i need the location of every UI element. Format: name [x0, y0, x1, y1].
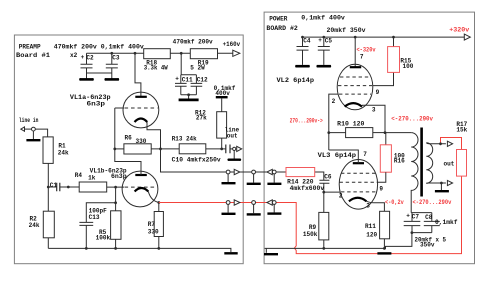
svg-text:x2: x2	[70, 52, 78, 59]
ground: line out	[233, 151, 235, 159]
wire: VL3 anode to node A	[329, 150, 359, 163]
svg-text:27k: 27k	[196, 114, 207, 121]
svg-text:R9: R9	[309, 224, 317, 231]
svg-text:C5: C5	[325, 38, 333, 45]
svg-text:100k: 100k	[96, 235, 111, 242]
svg-text:470mkf 200v: 470mkf 200v	[173, 39, 213, 46]
wire: VL3 g1	[324, 191, 340, 193]
wire: red signal row B	[159, 202, 267, 204]
wire: VL1a cathode to R6 node	[147, 122, 161, 149]
resistor R14 (red)	[286, 168, 315, 177]
svg-text:24k: 24k	[29, 222, 40, 229]
node: R6 right junction	[159, 148, 162, 151]
resistor R7	[158, 203, 160, 212]
svg-text:POWER: POWER	[269, 16, 288, 23]
svg-text:out: out	[444, 161, 455, 168]
wire: secondary top to out	[426, 143, 446, 144]
preamp labels	[16, 39, 240, 242]
wire: SRPP out to row A	[161, 149, 227, 172]
connector: line in	[21, 127, 25, 131]
svg-text:5 2W: 5 2W	[190, 64, 205, 71]
wire: red out tap to R17 top	[441, 138, 462, 150]
svg-text:330: 330	[148, 228, 159, 235]
node: R1/C1/R2 junction	[47, 186, 50, 189]
connector: row B cable	[252, 201, 256, 205]
wire: VL1b anode up to R6 left node	[115, 149, 141, 175]
svg-text:VL2 6p14p: VL2 6p14p	[277, 77, 315, 84]
svg-text:9: 9	[379, 185, 383, 192]
resistor R17 (red)	[457, 150, 467, 177]
ground C3	[105, 78, 119, 81]
resistor R18	[134, 52, 137, 55]
transformer core	[420, 128, 423, 197]
svg-text:+160v: +160v	[223, 41, 241, 48]
ground row A right	[273, 174, 275, 183]
svg-text:<-270...290v: <-270...290v	[391, 115, 433, 122]
svg-text:150k: 150k	[303, 231, 318, 238]
resistor R5	[111, 211, 121, 240]
svg-text:C13: C13	[89, 214, 100, 221]
connector: row A cable	[252, 170, 256, 174]
red annotations	[290, 26, 470, 206]
svg-text:R13 24k: R13 24k	[172, 136, 197, 143]
capacitor C3	[110, 52, 113, 55]
svg-text:350v: 350v	[420, 241, 435, 248]
wire: VL2 g2 to R15	[373, 72, 394, 85]
svg-text:120: 120	[366, 231, 377, 238]
capacitor C4	[297, 37, 309, 65]
svg-text:3: 3	[366, 203, 370, 210]
svg-text:4mkfx600v: 4mkfx600v	[290, 185, 325, 192]
svg-text:BOARD #2: BOARD #2	[266, 25, 298, 32]
board PREAMP #1 outline	[14, 35, 243, 264]
svg-text:+: +	[175, 75, 179, 82]
power labels	[266, 15, 467, 249]
ground: bus left end	[265, 248, 267, 252]
wire: VL3 cathode to R11	[367, 201, 385, 211]
svg-text:R6: R6	[125, 135, 133, 142]
svg-text:470mkf 200v 0,1mkf 400v: 470mkf 200v 0,1mkf 400v	[54, 43, 144, 50]
ground C2	[80, 78, 94, 81]
resistor R10	[329, 132, 346, 134]
svg-text:20mkf 350v: 20mkf 350v	[327, 27, 366, 34]
capacitor C8	[412, 213, 440, 233]
svg-text:R4: R4	[75, 172, 83, 179]
wire: power +320v rail	[303, 36, 465, 38]
svg-text:C12: C12	[197, 77, 208, 84]
capacitor C7	[404, 213, 432, 233]
svg-text:270...290v->: 270...290v->	[290, 117, 323, 124]
tube VL1a 6n23p triode	[123, 92, 159, 128]
resistor R19	[180, 52, 183, 55]
resistor R15 (red)	[393, 37, 395, 47]
svg-text:<-270...290v: <-270...290v	[413, 199, 452, 206]
svg-text:Board #1: Board #1	[16, 52, 50, 59]
connector: line out jack	[233, 147, 236, 150]
node: VL1b cathode junction	[157, 201, 160, 204]
svg-text:7: 7	[360, 54, 364, 61]
connector: row B preamp side	[226, 201, 230, 205]
capacitor C1	[48, 186, 56, 188]
capacitor C2	[81, 53, 112, 79]
svg-text:0,1mkf 400v: 0,1mkf 400v	[301, 15, 345, 22]
wire: red bus to R17	[276, 176, 461, 254]
transformer secondary	[426, 143, 432, 183]
svg-text:<-320v: <-320v	[357, 47, 376, 54]
connector: row B power side	[267, 200, 272, 205]
svg-text:6n3p: 6n3p	[87, 100, 106, 107]
arrow +320v	[464, 34, 470, 40]
wire: VL1a grid down to R6 left node	[114, 108, 116, 149]
svg-text:3.3k 4W: 3.3k 4W	[144, 64, 168, 71]
svg-text:2: 2	[332, 98, 336, 105]
svg-text:+320v: +320v	[449, 26, 469, 33]
wire: VL1b cathode	[148, 192, 159, 203]
svg-text:C1: C1	[50, 182, 58, 189]
capacitor C5	[318, 37, 330, 65]
svg-text:C4: C4	[303, 38, 311, 45]
resistor R6	[115, 148, 124, 150]
svg-text:+: +	[406, 212, 410, 219]
svg-text:R16: R16	[394, 157, 405, 164]
ground: R12 top bar	[216, 96, 228, 98]
svg-text:330: 330	[136, 138, 147, 145]
wire: power ground bus	[265, 233, 412, 249]
resistor R16 (red)	[385, 133, 387, 145]
svg-text:C2: C2	[86, 54, 94, 61]
capacitor C11	[175, 53, 196, 95]
ground: preamp bus right end	[224, 252, 237, 254]
capacitor C10	[226, 145, 230, 154]
svg-text:R7: R7	[148, 221, 156, 228]
wire: grid node to C13	[86, 203, 115, 223]
ground: line in	[32, 131, 34, 139]
svg-text:2: 2	[339, 193, 343, 200]
wire: grid node down	[115, 187, 117, 211]
ground row A left	[227, 174, 229, 182]
node: R12 bottom junction	[220, 148, 223, 151]
svg-text:R10 120: R10 120	[337, 120, 365, 127]
wire: preamp ground bus	[48, 248, 231, 252]
wire: rail to VL1a anode	[135, 53, 141, 96]
svg-text:3: 3	[372, 106, 376, 113]
tube VL2 6p14p pentode	[354, 37, 356, 67]
svg-text:C3: C3	[112, 54, 120, 61]
capacitor C6	[315, 172, 330, 192]
node: R6 left junction	[113, 148, 116, 151]
resistor R1	[43, 137, 53, 164]
svg-text:400v: 400v	[215, 90, 230, 97]
wire: VL2 g1 to node A	[329, 94, 338, 150]
svg-text:C11: C11	[182, 77, 193, 84]
svg-text:15k: 15k	[456, 127, 467, 134]
wire: preamp +160v rail	[87, 52, 233, 54]
svg-text:100: 100	[403, 63, 414, 70]
svg-text:PREAMP: PREAMP	[19, 44, 41, 51]
svg-text:0,1mkf: 0,1mkf	[435, 219, 458, 226]
ground: out jack	[440, 183, 442, 190]
wire: secondary bottom to out	[426, 182, 446, 184]
wire: R16 to VL3 g2	[377, 172, 385, 182]
svg-text:C8: C8	[425, 214, 433, 221]
tube VL3 6p14p pentode	[339, 160, 377, 210]
board POWER #2 outline	[264, 12, 474, 264]
svg-text:line in: line in	[19, 117, 39, 124]
capacitor C13	[79, 222, 93, 248]
svg-text:6n3p: 6n3p	[111, 173, 127, 180]
resistor R13	[151, 148, 179, 150]
arrow +160v	[233, 50, 240, 56]
resistor R11	[380, 211, 390, 239]
wire: VL2 cathode to node B	[362, 105, 385, 132]
svg-text:C10 4mkfx250v: C10 4mkfx250v	[172, 157, 221, 164]
svg-text:<-0,2v: <-0,2v	[385, 199, 404, 206]
ground: R11	[377, 252, 391, 254]
ground row A mid	[253, 174, 255, 183]
svg-text:+: +	[81, 54, 85, 61]
svg-text:out: out	[227, 133, 238, 140]
svg-text:R11: R11	[365, 223, 376, 230]
wire: node B to transformer primary	[385, 132, 411, 134]
resistor R9	[323, 192, 325, 212]
svg-text:VL3 6p14p: VL3 6p14p	[318, 152, 357, 159]
ground C11 C12	[187, 93, 190, 96]
connector: row A preamp side	[226, 170, 230, 174]
tube VL1b 6n23p triode	[122, 171, 158, 207]
transformer T1 primary	[411, 133, 418, 213]
resistor R12	[221, 98, 223, 111]
svg-text:1k: 1k	[88, 175, 96, 182]
svg-text:9: 9	[376, 89, 380, 96]
svg-text:24k: 24k	[58, 149, 69, 156]
resistor R2	[43, 211, 54, 238]
capacitor C12	[181, 75, 202, 95]
svg-text:7: 7	[363, 151, 367, 158]
resistor R4	[79, 182, 107, 192]
svg-text:C6: C6	[324, 173, 332, 180]
svg-text:C7: C7	[412, 213, 420, 220]
node: VL1b grid	[114, 186, 117, 189]
connector: row A power side	[267, 169, 272, 174]
svg-text:+: +	[318, 37, 322, 44]
